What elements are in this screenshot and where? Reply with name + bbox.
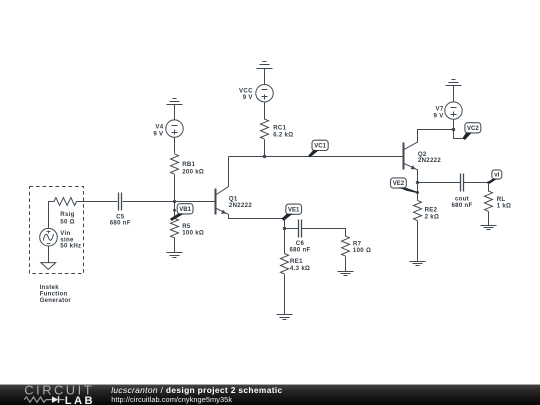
wire C6 to R7 bbox=[302, 229, 346, 237]
svg-text:1 kΩ: 1 kΩ bbox=[497, 203, 512, 210]
logo resistor squiggle bbox=[24, 397, 52, 402]
wire Vin top to Rsig bbox=[49, 202, 55, 229]
wire VCC to RC1 bbox=[264, 102, 266, 120]
node vl flag attach dot bbox=[487, 181, 490, 184]
node VE1 flag bbox=[286, 204, 302, 214]
svg-text:2N2222: 2N2222 bbox=[229, 202, 252, 209]
svg-text:http://circuitlab.com/cnyknge5: http://circuitlab.com/cnyknge5my35k bbox=[111, 395, 232, 404]
resistor R5 100 kOhm bbox=[171, 218, 179, 237]
wire main node to R5 bbox=[174, 202, 176, 219]
svg-text:680 nF: 680 nF bbox=[289, 246, 310, 253]
svg-text:9 V: 9 V bbox=[153, 130, 164, 137]
ground (above V4) bbox=[173, 98, 177, 100]
svg-text:Function: Function bbox=[40, 291, 68, 297]
node VE2 flag attach dot bbox=[416, 191, 419, 194]
source Vin (sine) bbox=[40, 228, 58, 246]
label RC1 6.2 kOhm bbox=[273, 125, 293, 139]
resistor RL 1 kOhm bbox=[485, 191, 493, 211]
junction VE1/C6 tee bbox=[283, 227, 286, 230]
ground (above VCC) bbox=[263, 61, 267, 63]
svg-text:lucscranton / design project 2: lucscranton / design project 2 schematic bbox=[111, 385, 282, 395]
node vl flag bbox=[492, 170, 502, 179]
capacitor C6 680 nF bbox=[298, 220, 300, 238]
svg-text:2 kΩ: 2 kΩ bbox=[425, 213, 440, 220]
svg-text:100 kΩ: 100 kΩ bbox=[182, 230, 204, 237]
capacitor C5 680 nF bbox=[118, 193, 120, 211]
transistor Q1 2N2222 bbox=[216, 187, 229, 215]
ground (below R5) bbox=[167, 252, 183, 254]
junction Q2 emitter / cout tee bbox=[416, 181, 419, 184]
node VB1 flag bbox=[177, 204, 193, 214]
junction V7/collector/VC2 bbox=[452, 128, 455, 131]
svg-text:RE1: RE1 bbox=[290, 258, 303, 265]
resistor RE2 2 kOhm bbox=[414, 200, 422, 220]
label R7 100 Ohm bbox=[353, 240, 371, 254]
wire ground to VCC bbox=[264, 69, 266, 85]
wire RE2 to ground bbox=[417, 221, 419, 262]
ground (below RE1) bbox=[277, 314, 293, 316]
resistor RB1 200 kOhm bbox=[171, 154, 179, 174]
svg-text:50 kHz: 50 kHz bbox=[60, 243, 81, 250]
svg-text:VB1: VB1 bbox=[179, 207, 191, 213]
wire R7 to ground bbox=[345, 257, 347, 272]
label C6 680 nF bbox=[289, 240, 310, 254]
wire V7 to collector junction bbox=[453, 120, 455, 130]
wire stub to VC2 flag bbox=[454, 130, 464, 139]
node VB1 flag attach dot bbox=[173, 209, 176, 212]
label Rsig 50 Ohm bbox=[60, 211, 75, 226]
label V4 9 V bbox=[153, 124, 164, 138]
wire emitter tee to cout bbox=[418, 182, 461, 184]
wire RL to ground bbox=[488, 212, 490, 226]
wire Q1 emitter down and right to VE1 bbox=[229, 215, 285, 219]
source VCC 9 V bbox=[256, 85, 273, 102]
node VE2 flag bbox=[391, 178, 407, 188]
function generator enclosure (dashed box) bbox=[30, 187, 84, 274]
label cout 680 nF bbox=[451, 196, 472, 210]
svg-text:Generator: Generator bbox=[40, 298, 72, 304]
wire Q1 collector up to rail bbox=[228, 157, 230, 187]
svg-text:200 kΩ: 200 kΩ bbox=[182, 169, 204, 176]
junction node VB1 on main wire bbox=[173, 200, 176, 203]
resistor R7 100 Ohm bbox=[342, 236, 350, 256]
wire RC1 to rail bbox=[264, 140, 266, 157]
wire Vin bottom to ground bbox=[48, 247, 50, 263]
wire RB1 to main node bbox=[174, 175, 176, 202]
ground (Vin, triangle) bbox=[41, 263, 56, 270]
svg-text:680 nF: 680 nF bbox=[451, 202, 472, 209]
svg-text:vl: vl bbox=[494, 173, 499, 179]
source V7 9 V bbox=[445, 102, 462, 119]
transistor Q2 2N2222 bbox=[404, 142, 418, 170]
logo diode bbox=[52, 396, 58, 403]
capacitor cout 680 nF bbox=[460, 174, 462, 192]
svg-text:9 V: 9 V bbox=[243, 94, 254, 101]
label RE1 4.3 kOhm bbox=[290, 258, 310, 272]
svg-text:2N2222: 2N2222 bbox=[418, 157, 441, 164]
label Q1 2N2222 bbox=[229, 195, 252, 208]
label RE2 2 kOhm bbox=[425, 206, 440, 220]
wire RE1 to ground bbox=[284, 275, 286, 315]
ground (below RE2) bbox=[410, 261, 426, 263]
svg-text:9 V: 9 V bbox=[434, 112, 445, 119]
wire C5 to Q1 base bbox=[123, 201, 216, 203]
svg-text:50 Ω: 50 Ω bbox=[60, 218, 75, 225]
ground (below RL) bbox=[481, 225, 497, 227]
node VC2 flag bbox=[465, 123, 481, 133]
svg-text:VE1: VE1 bbox=[288, 207, 300, 213]
wire Q2 collector up and right to V7 bbox=[418, 130, 454, 143]
wire R5 to ground bbox=[174, 238, 176, 253]
wire ground to V4 bbox=[174, 105, 176, 120]
source V4 9 V bbox=[166, 120, 183, 137]
label V7 9 V bbox=[434, 106, 445, 120]
resistor RC1 6.2 kOhm bbox=[261, 119, 269, 139]
wire collector rail Q1 to Q2 base (node VC1) bbox=[229, 156, 404, 158]
wire cout to RL (node vl) bbox=[464, 183, 489, 192]
resistor RE1 4.3 kOhm bbox=[281, 254, 289, 275]
svg-text:RC1: RC1 bbox=[273, 125, 286, 132]
svg-text:4.3 kΩ: 4.3 kΩ bbox=[290, 265, 310, 272]
label RL 1 kOhm bbox=[497, 196, 512, 210]
node VE1 flag attach dot bbox=[283, 217, 286, 220]
svg-text:LAB: LAB bbox=[65, 395, 95, 405]
svg-text:680 nF: 680 nF bbox=[110, 220, 131, 227]
label RB1 200 kOhm bbox=[182, 161, 204, 176]
wire Rsig to C5 bbox=[77, 201, 118, 203]
label Vin sine 50 kHz bbox=[60, 230, 81, 249]
svg-text:100 Ω: 100 Ω bbox=[353, 247, 371, 254]
junction RC1/rail bbox=[263, 155, 266, 158]
label Q2 2N2222 bbox=[418, 151, 441, 164]
svg-text:6.2 kΩ: 6.2 kΩ bbox=[273, 132, 293, 139]
ground (above V7) bbox=[452, 79, 456, 81]
svg-text:Instek: Instek bbox=[40, 285, 60, 291]
label VCC 9 V bbox=[239, 88, 253, 102]
wire V4 to RB1 bbox=[174, 138, 176, 154]
resistor Rsig 50 Ohm bbox=[54, 198, 77, 206]
svg-text:VC2: VC2 bbox=[467, 126, 479, 132]
ground (below R7) bbox=[338, 271, 354, 273]
label R5 100 kOhm bbox=[182, 223, 204, 237]
footer watermark bar bbox=[0, 384, 540, 385]
wire Q2 emitter down to RE2 bbox=[417, 170, 419, 201]
wire ground to V7 bbox=[453, 86, 455, 103]
svg-text:VE2: VE2 bbox=[393, 181, 405, 187]
label Instek Function Generator bbox=[40, 285, 72, 304]
label C5 680 nF bbox=[110, 213, 131, 226]
svg-text:VC1: VC1 bbox=[314, 144, 326, 150]
svg-text:RB1: RB1 bbox=[182, 161, 195, 168]
svg-text:Rsig: Rsig bbox=[60, 211, 74, 218]
node VC1 flag bbox=[312, 140, 328, 150]
wire VE1 to C6 bbox=[285, 228, 299, 230]
wire VE1 down to RE1 bbox=[284, 219, 286, 254]
